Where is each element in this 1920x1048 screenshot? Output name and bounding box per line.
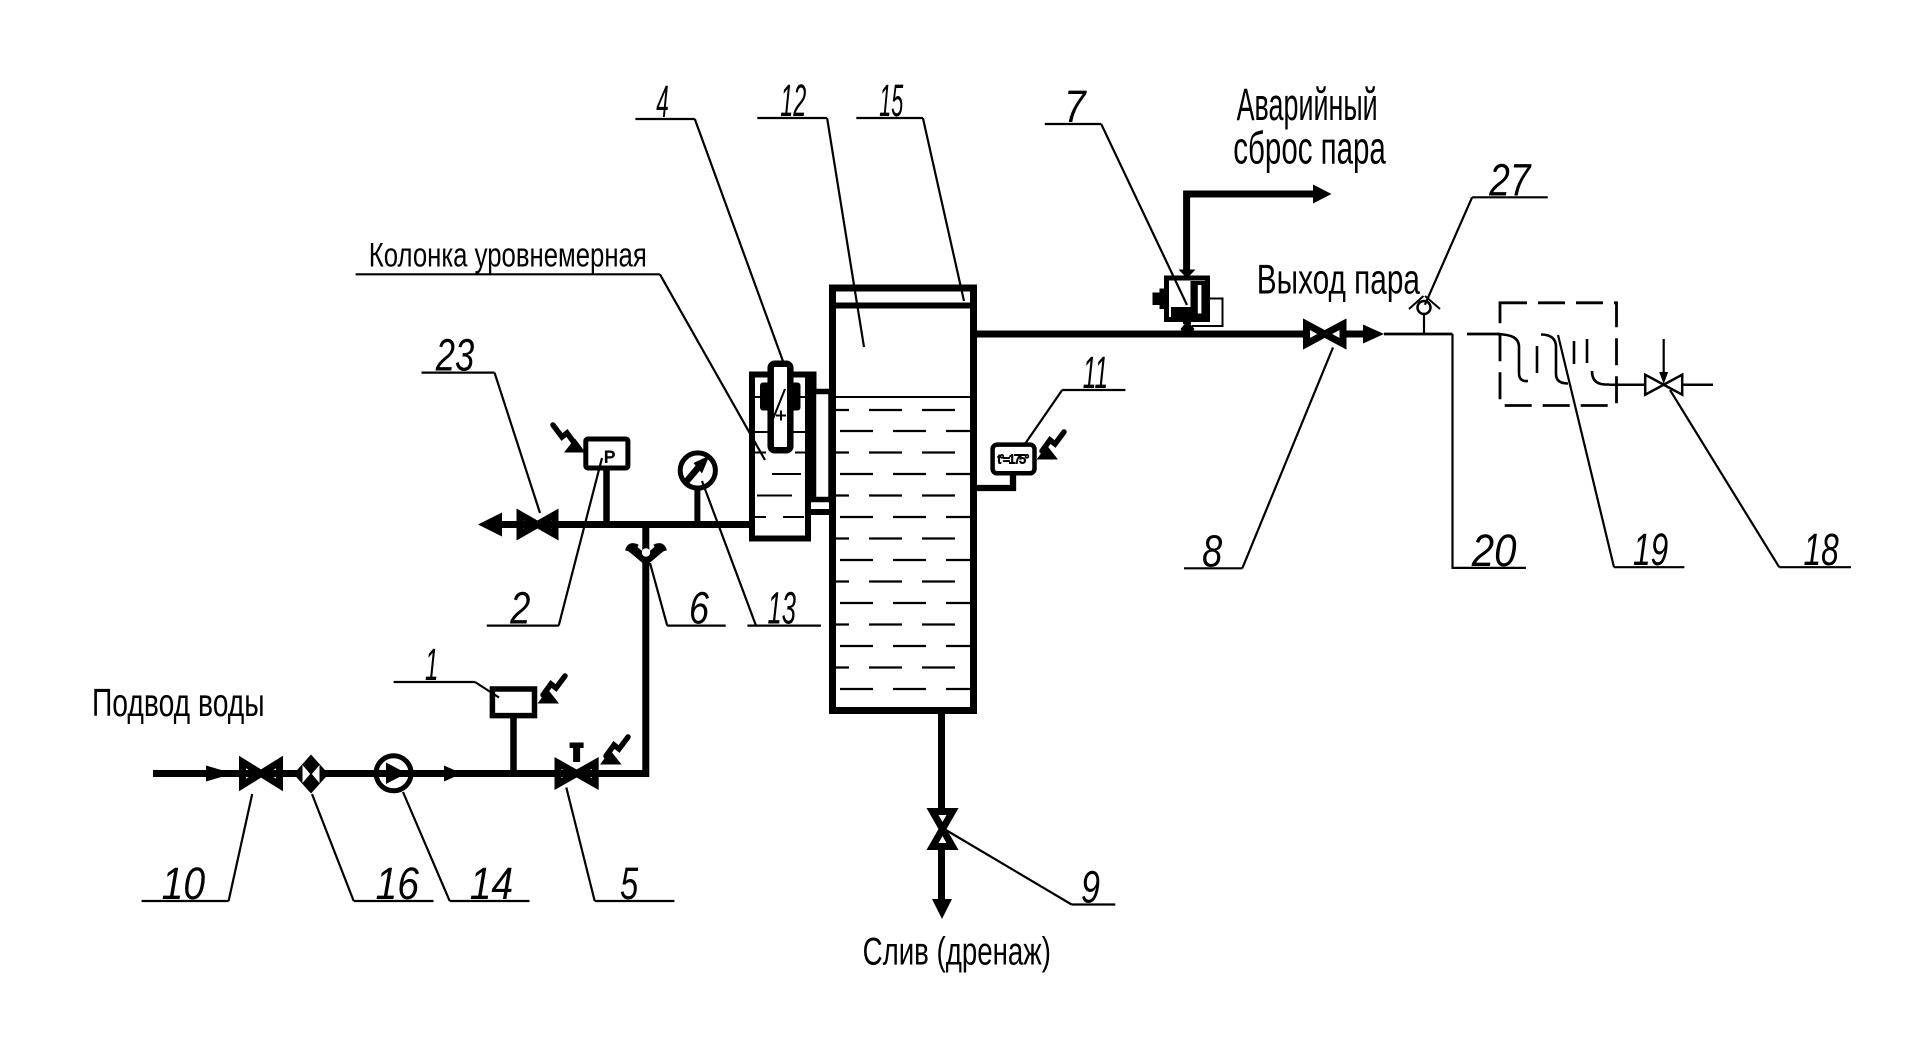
node label 18 <box>1670 390 1851 575</box>
sensor 11 (temperature switch t=175) <box>993 445 1035 474</box>
node emergency relief arrow <box>1313 185 1332 204</box>
node label 19 <box>1558 335 1684 575</box>
node label 10 <box>142 794 253 909</box>
node label 9 <box>945 830 1115 913</box>
svg-text:P: P <box>604 448 615 467</box>
node label 6 <box>650 563 726 634</box>
node label 12 <box>757 75 864 347</box>
node label 15 <box>856 75 964 301</box>
node label 20 <box>1452 525 1526 576</box>
node label 4 <box>635 76 784 364</box>
node flow arrow after pump <box>444 766 462 782</box>
wire line from coil to valve 18 <box>1609 383 1644 386</box>
wire drain pipe lower <box>938 850 945 900</box>
wire stub to gauge 13 <box>694 490 700 525</box>
box 19 (heat exchanger, dashed outline) <box>1500 303 1617 406</box>
node label 5 <box>566 788 674 910</box>
pump 14 <box>376 756 411 791</box>
node blowoff arrow on manifold <box>478 513 502 537</box>
node connection pocket between column and vessel <box>814 392 832 500</box>
node label 23 <box>422 330 541 513</box>
check valve 6 on feed riser <box>628 546 665 565</box>
node label 8 <box>1184 348 1333 577</box>
node water level line <box>836 396 970 398</box>
column 12 (level measuring column) <box>752 375 833 539</box>
wire stub to sensor 2 <box>603 467 610 525</box>
node inlet flow arrow <box>206 766 233 782</box>
node electric signal arrow at sensor 2 <box>553 425 586 453</box>
wire water inlet line <box>153 525 646 774</box>
valve 8 (steam outlet valve) <box>1307 324 1344 344</box>
node label 7 <box>1045 81 1187 305</box>
sensor 2 (pressure transducer P) <box>586 439 628 468</box>
valve 10 (inlet shutoff valve) <box>243 762 280 785</box>
node water hatching in vessel <box>836 410 970 689</box>
wire thin steam line to heat exchanger <box>1467 333 1500 336</box>
node label 2 <box>487 458 602 634</box>
svg-text:сброс пара: сброс пара <box>1233 123 1386 174</box>
node electric signal arrow at sensor 11 <box>1037 432 1065 460</box>
node label 16 <box>312 794 434 909</box>
node title Колонка уровнемерная <box>356 237 765 461</box>
filter 16 (check valve / strainer) <box>294 755 329 794</box>
wire stub to temperature sensor 11 <box>977 474 1013 488</box>
valve 7 (safety relief valve) <box>1153 270 1223 338</box>
wire steam outlet from vessel <box>970 331 1303 338</box>
wire drain pipe upper <box>938 710 945 809</box>
wire line after valve 18 <box>1683 383 1713 386</box>
node label 27 <box>1425 154 1548 304</box>
node title Аварийный сброс пара <box>1233 79 1386 174</box>
wire emergency relief riser and top run <box>1187 194 1313 271</box>
svg-text:Выход пара: Выход пара <box>1257 255 1421 302</box>
wire stub to sensor 1 <box>510 716 517 774</box>
svg-text:Колонка уровнемерная: Колонка уровнемерная <box>369 237 647 275</box>
node label 13 <box>702 481 821 634</box>
sensor 4 (level sensor cartridge) <box>760 364 801 451</box>
wire 20 condensate line down <box>1451 334 1453 568</box>
wire manifold pressure line <box>495 521 749 528</box>
node electric signal arrow at valve 5 <box>600 737 628 765</box>
node label 11 <box>1024 347 1125 445</box>
node electric signal arrow at sensor 1 <box>538 676 566 704</box>
sensor 1 (water supply pressure switch) <box>492 689 534 716</box>
coil of heat exchanger 19 <box>1497 334 1609 385</box>
valve 5 (feed solenoid valve) <box>558 743 595 785</box>
sensor 27 (steam sampling device) <box>1409 296 1440 334</box>
valve 18 (consumer shutoff valve) <box>1645 339 1682 395</box>
vessel 15 (steam generator tank) <box>833 288 974 711</box>
svg-text:Слив (дренаж): Слив (дренаж) <box>863 931 1051 974</box>
wire thin steam line to tap <box>1384 333 1453 336</box>
valve 9 (drain valve) <box>933 812 953 847</box>
valve 23 (blow-down valve) <box>520 515 555 535</box>
gauge 13 (pressure gauge) <box>680 453 715 488</box>
node label 1 <box>394 639 499 698</box>
node steam flow arrow after valve 8 <box>1346 325 1384 344</box>
svg-text:t°=175°: t°=175° <box>998 453 1030 467</box>
node label 14 <box>403 792 530 909</box>
svg-text:Подвод воды: Подвод воды <box>92 682 265 725</box>
node drain arrow <box>932 899 952 919</box>
